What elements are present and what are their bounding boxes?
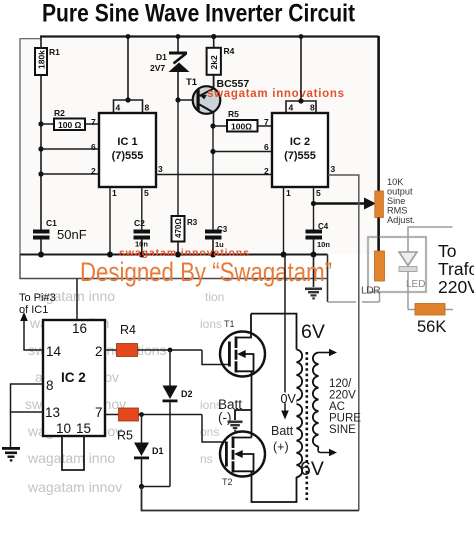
node D1/D2 cathode junction — [139, 484, 144, 489]
svg-text:15: 15 — [76, 421, 91, 436]
wire T1 source to T2 drain rail — [251, 410, 253, 438]
svg-text:T1: T1 — [186, 77, 198, 88]
svg-text:2: 2 — [95, 344, 103, 359]
node D1 top frame — [176, 34, 181, 39]
svg-text:56K: 56K — [417, 318, 446, 336]
svg-text:R4: R4 — [224, 46, 235, 56]
svg-text:ons: ons — [200, 425, 219, 439]
mosfet T1 — [220, 314, 265, 410]
svg-text:R3: R3 — [187, 218, 198, 227]
svg-text:2k2: 2k2 — [209, 55, 219, 69]
wire R1 column down to C1 — [40, 124, 42, 231]
svg-text:6: 6 — [264, 142, 269, 152]
wire IC2 pin3 output — [328, 175, 359, 511]
transformer primary lower — [297, 404, 303, 477]
wire T2 source to transformer bottom — [252, 471, 297, 502]
zener D1 2V7 — [150, 37, 190, 100]
svg-text:D1: D1 — [156, 52, 167, 62]
svg-text:(7)555: (7)555 — [112, 150, 144, 162]
svg-text:(7)555: (7)555 — [284, 150, 316, 162]
node pin1-bus — [107, 252, 113, 258]
capacitor C2 — [134, 187, 151, 255]
svg-text:7: 7 — [95, 405, 103, 420]
wire T1 collector column — [212, 127, 214, 230]
svg-text:R4: R4 — [120, 323, 136, 337]
svg-text:wagatam innov: wagatam innov — [27, 479, 122, 495]
resistor R4 (2k2) — [207, 37, 235, 88]
LED — [399, 227, 453, 310]
svg-text:7: 7 — [264, 117, 269, 127]
mosfet T2 — [220, 432, 265, 488]
svg-text:1: 1 — [112, 188, 117, 198]
wire D2 to D1 link — [142, 486, 171, 488]
node pin2 junction — [38, 171, 43, 176]
node pin6 junction — [38, 146, 43, 151]
right frame rail — [377, 36, 380, 251]
wire IC1 pin3 to IC2 pin2 — [156, 174, 272, 176]
svg-text:6V: 6V — [300, 458, 324, 480]
label Batt minus — [218, 397, 242, 425]
svg-text:R2: R2 — [54, 108, 65, 118]
node IC2pin1-bus — [281, 252, 287, 258]
svg-text:4: 4 — [289, 103, 294, 113]
svg-text:3: 3 — [331, 164, 336, 174]
svg-text:7: 7 — [91, 117, 96, 127]
wire base junction down to R3 — [177, 100, 179, 216]
svg-text:4: 4 — [116, 103, 121, 113]
svg-text:10K: 10K — [387, 177, 404, 187]
svg-text:0V: 0V — [281, 392, 297, 406]
node D1/base/R3 junction — [175, 97, 180, 102]
bottom-section top wire — [20, 255, 328, 279]
svg-text:D2: D2 — [181, 389, 193, 399]
wire T1 drain to transformer top — [251, 314, 297, 350]
node collector/R5 junction — [210, 123, 215, 128]
svg-text:14: 14 — [46, 344, 62, 359]
svg-text:50nF: 50nF — [57, 227, 87, 242]
resistor R1 — [35, 37, 60, 124]
node R4/D2 junction — [168, 348, 173, 353]
svg-text:6: 6 — [91, 142, 96, 152]
label To Trafo 220V — [438, 241, 474, 297]
svg-text:(+): (+) — [273, 440, 289, 454]
svg-text:tion: tion — [205, 290, 224, 304]
svg-text:output: output — [387, 187, 413, 197]
wire pin6 IC2 — [213, 151, 272, 153]
wire bus to LDR bottom — [328, 292, 380, 302]
svg-text:IC 2: IC 2 — [290, 136, 310, 148]
watermark rows (bottom section, light gray) — [25, 288, 224, 495]
ground (Batt- arrow) — [228, 421, 243, 432]
wire to T1 gate — [202, 350, 229, 365]
wire arrow to pot — [314, 198, 377, 210]
wire pin13 to left rail — [11, 412, 44, 447]
wire Batt- stub — [235, 410, 252, 420]
wire bottom return to pin3 rail — [142, 487, 359, 511]
svg-text:AC: AC — [329, 401, 345, 413]
wire to T2 gate — [202, 415, 226, 443]
svg-text:220V: 220V — [329, 390, 356, 402]
node C2-bus — [139, 252, 145, 258]
ground (earth, bottom left) — [2, 447, 20, 462]
svg-text:C1: C1 — [46, 218, 57, 228]
svg-text:ions: ions — [200, 317, 222, 331]
node pin5/C4/arrow junction — [311, 201, 316, 206]
node R3-bus — [175, 252, 181, 258]
svg-text:T2: T2 — [222, 477, 233, 487]
svg-text:10n: 10n — [317, 240, 330, 249]
svg-text:To: To — [438, 241, 456, 261]
svg-text:220V: 220V — [438, 277, 474, 297]
node C1-bus — [38, 252, 44, 258]
resistor R4 (bottom) — [105, 323, 202, 357]
wire 0V stub — [285, 401, 297, 403]
svg-text:PURE: PURE — [329, 413, 361, 425]
op IC2 (bottom, 4017) — [43, 320, 105, 436]
op IC1 555 — [91, 103, 163, 199]
node R2/R1 junction — [38, 121, 43, 126]
wire secondary top arrow — [319, 349, 338, 356]
bus corner down to LDR line — [327, 255, 329, 303]
node C3-bus — [210, 252, 216, 258]
svg-text:Sine: Sine — [387, 196, 405, 206]
wire IC2 pins4+8 bracket — [286, 37, 316, 113]
wire IC2 pin1 to bus — [283, 187, 285, 255]
transformer primary upper — [297, 350, 303, 401]
wire centre tap / Batt+ — [284, 255, 286, 414]
diode D1 — [134, 415, 164, 487]
svg-text:8: 8 — [145, 103, 150, 113]
label Batt plus — [271, 424, 294, 454]
svg-text:5: 5 — [316, 188, 321, 198]
svg-text:13: 13 — [45, 405, 60, 420]
node R5/D1 junction — [139, 412, 144, 417]
node bracket center — [125, 97, 130, 102]
potentiometer 10K — [375, 177, 415, 225]
svg-text:D1: D1 — [152, 446, 164, 456]
svg-text:10: 10 — [56, 421, 71, 436]
svg-text:To Pi#3: To Pi#3 — [19, 292, 56, 304]
svg-text:C3: C3 — [217, 225, 228, 234]
LDR/LED enclosure box — [368, 237, 426, 292]
title — [42, 0, 356, 28]
svg-text:120/: 120/ — [329, 378, 352, 390]
transformer secondary — [313, 353, 319, 447]
svg-text:C2: C2 — [134, 218, 145, 228]
svg-text:5: 5 — [144, 188, 149, 198]
svg-text:180k: 180k — [37, 50, 47, 69]
op IC2 555 (top) — [264, 103, 336, 199]
LDR — [361, 251, 385, 297]
resistor R2 — [41, 108, 99, 130]
svg-text:R5: R5 — [117, 429, 133, 443]
svg-text:LDR: LDR — [361, 285, 381, 297]
label 120/220V AC PURE SINE — [329, 378, 361, 436]
capacitor C1 — [33, 218, 87, 255]
svg-text:wagatam inno: wagatam inno — [27, 450, 115, 466]
resistor R5 (100 ohm, top) — [213, 109, 272, 132]
wire IC1 pin1 to bus — [109, 187, 111, 255]
svg-text:2: 2 — [91, 166, 96, 176]
svg-text:IC 2: IC 2 — [61, 370, 86, 385]
node bracket top frame — [126, 34, 131, 39]
svg-text:100 Ω: 100 Ω — [58, 120, 82, 130]
svg-text:2: 2 — [264, 166, 269, 176]
svg-text:swagatam innovations: swagatam innovations — [207, 88, 344, 100]
svg-text:6V: 6V — [301, 321, 325, 343]
resistor R5 (bottom) — [105, 408, 202, 443]
transistor T1 BC557 — [178, 75, 249, 127]
svg-text:16: 16 — [72, 321, 87, 336]
node collector/pin6 junction — [210, 149, 215, 154]
svg-text:100Ω: 100Ω — [231, 122, 252, 132]
svg-text:R1: R1 — [49, 47, 60, 57]
resistor R3 — [172, 216, 198, 255]
wire pin16 feed from bus — [76, 279, 78, 321]
svg-text:Trafo: Trafo — [438, 259, 474, 279]
svg-text:8: 8 — [310, 103, 315, 113]
svg-text:Batt: Batt — [271, 424, 294, 438]
svg-text:1: 1 — [286, 188, 291, 198]
svg-text:T1: T1 — [224, 319, 235, 329]
label To Pi#3 of IC1 — [19, 292, 56, 316]
top frame of oscillator box — [20, 39, 41, 255]
transformer core (dotted) — [305, 352, 308, 500]
svg-text:LED: LED — [406, 279, 425, 290]
svg-text:R5: R5 — [228, 109, 239, 119]
wire pin8 to left rail — [11, 384, 44, 412]
svg-text:3: 3 — [158, 164, 163, 174]
svg-text:Designed By “Swagatam”: Designed By “Swagatam” — [80, 257, 332, 287]
node C4-bus — [311, 252, 317, 258]
wire pin2 IC1 — [41, 173, 99, 175]
wire pins10-15 loop — [62, 436, 84, 470]
node IC2 bracket — [298, 98, 303, 103]
svg-text:2V7: 2V7 — [150, 63, 165, 73]
capacitor C3 — [205, 225, 228, 255]
wire pin6 IC1 — [41, 148, 99, 150]
svg-text:470Ω: 470Ω — [174, 218, 183, 238]
diode D2 — [163, 350, 193, 487]
svg-text:Adjust.: Adjust. — [387, 215, 415, 225]
wire secondary bottom arrow — [318, 447, 337, 457]
wire pin14 with arrow up — [20, 312, 43, 350]
svg-text:SINE: SINE — [329, 424, 356, 436]
svg-text:RMS: RMS — [387, 206, 407, 216]
capacitor C4 — [306, 222, 331, 255]
label 0V — [279, 392, 296, 406]
svg-text:C4: C4 — [318, 222, 329, 231]
wire frame rail into LDR — [378, 218, 380, 252]
svg-text:IC 1: IC 1 — [117, 136, 137, 148]
ground (signal, below bus) — [305, 255, 322, 300]
ground bus — [20, 254, 328, 256]
node IC2 bracket frame — [299, 34, 304, 39]
wire IC1 pins4+8 bracket — [114, 37, 143, 113]
svg-text:ns: ns — [200, 452, 213, 466]
svg-text:8: 8 — [46, 378, 54, 393]
node R4 top frame — [211, 34, 216, 39]
resistor 56K — [408, 304, 453, 337]
wire IC2 pin5 down — [313, 187, 315, 230]
svg-text:Pure Sine Wave Inverter Circui: Pure Sine Wave Inverter Circuit — [42, 0, 356, 28]
